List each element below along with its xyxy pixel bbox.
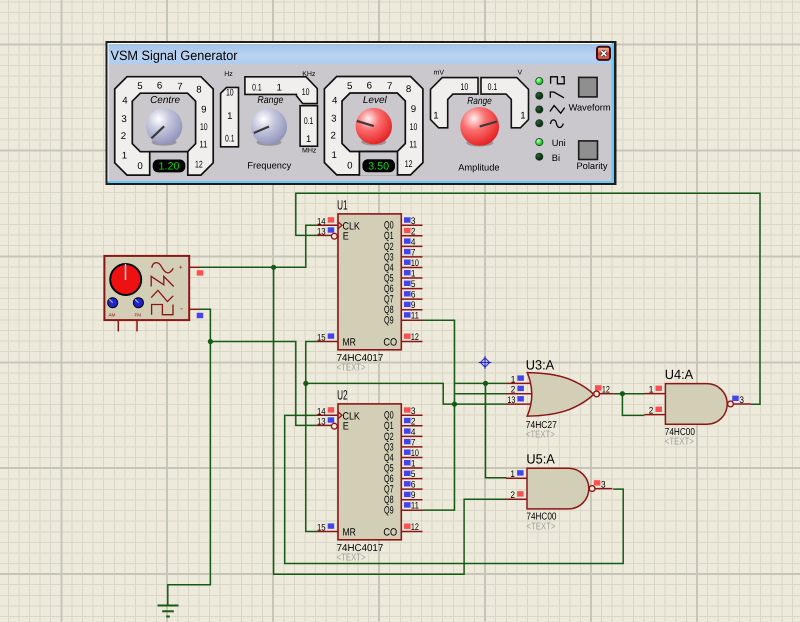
U2 E pin stub with bubble [317, 424, 332, 426]
wire U5 output to U2 CLK [285, 415, 624, 563]
svg-text:6: 6 [367, 80, 372, 91]
svg-text:0: 0 [347, 161, 353, 172]
gate U5:A 74HC00 NAND [506, 452, 613, 533]
svg-text:0.1: 0.1 [252, 82, 262, 93]
svg-text:1: 1 [277, 82, 282, 93]
svg-text:9: 9 [411, 490, 416, 501]
U1 pin 12 CO [401, 341, 422, 343]
U1 pin 14 CLK state square and number [328, 217, 335, 222]
dial Centre [115, 77, 214, 176]
U1 pin 5 Q6 [401, 288, 422, 290]
svg-text:7: 7 [411, 247, 416, 258]
svg-text:2: 2 [411, 226, 416, 237]
U2 pin 3 Q0 [401, 414, 422, 416]
U2 MR pin stub [317, 531, 339, 533]
svg-text:CO: CO [383, 337, 397, 349]
U2 pin 7 Q3 [401, 446, 422, 448]
svg-text:Range: Range [257, 95, 283, 106]
svg-text:1: 1 [510, 469, 515, 480]
svg-text:2: 2 [331, 131, 336, 142]
U5:A pin 2 stub [506, 498, 527, 500]
wire - net to U2 E [210, 342, 316, 426]
amplitude Range plates [431, 70, 529, 173]
svg-text:1.20: 1.20 [159, 161, 180, 173]
U1 pin 13 E state square and number [328, 227, 335, 232]
svg-text:1: 1 [433, 111, 438, 122]
VSM Signal Generator window [106, 41, 617, 185]
svg-text:12: 12 [602, 385, 610, 396]
svg-text:U3:A: U3:A [526, 358, 554, 373]
IC U2 74HC4017 [317, 387, 423, 563]
svg-text:7: 7 [387, 81, 392, 92]
U3 pin 1 state square and number [517, 375, 524, 380]
svg-text:U4:A: U4:A [665, 367, 693, 382]
svg-text:10: 10 [410, 122, 418, 133]
svg-text:5: 5 [411, 279, 416, 290]
svg-text:Q9: Q9 [384, 505, 394, 517]
svg-text:1: 1 [122, 150, 127, 161]
svg-text:11: 11 [200, 140, 208, 151]
svg-text:11: 11 [411, 311, 419, 322]
svg-text:MHz: MHz [302, 148, 317, 155]
svg-text:4: 4 [122, 96, 128, 107]
svg-text:2: 2 [510, 490, 515, 501]
svg-text:9: 9 [201, 104, 206, 115]
svg-text:12: 12 [405, 159, 413, 170]
wire generator - down [199, 309, 210, 341]
svg-text:3: 3 [739, 395, 744, 406]
svg-text:U1: U1 [337, 197, 348, 212]
ground [158, 606, 179, 617]
svg-text:Hz: Hz [224, 71, 233, 78]
svg-text:1: 1 [332, 150, 337, 161]
gate U3:A 74HC27 NOR [507, 358, 614, 441]
svg-text:3: 3 [601, 479, 606, 490]
svg-text:Level: Level [363, 95, 388, 106]
node junction to U5 input 1 [483, 381, 488, 386]
wire MR net to U3 input pin 13 [306, 383, 507, 404]
svg-text:Centre: Centre [150, 95, 180, 106]
U2 pin 6 Q7 [401, 488, 422, 490]
svg-text:8: 8 [196, 84, 201, 95]
svg-text:9: 9 [411, 104, 416, 115]
node junction on - net [208, 339, 213, 344]
svg-text:+: + [179, 265, 183, 272]
svg-text:U5:A: U5:A [526, 452, 554, 467]
U1 MR pin stub [317, 341, 339, 343]
U1 pin 10 Q4 [401, 267, 422, 269]
U2 pin 1 Q5 [401, 467, 422, 469]
node junction on + net [271, 265, 276, 270]
svg-text:MR: MR [343, 527, 357, 539]
svg-text:12: 12 [411, 332, 419, 343]
U1 pin 1 Q5 [401, 277, 422, 279]
U1 pin 11 Q9 [401, 319, 422, 321]
svg-text:15: 15 [317, 523, 326, 534]
svg-text:3: 3 [411, 216, 416, 227]
node junction on Q9 column [452, 402, 457, 407]
svg-text:3: 3 [331, 114, 336, 125]
U1 pin 2 Q1 [401, 235, 422, 237]
U4:A pin 3 output stub [734, 403, 751, 405]
U3 pin 12 output square and number [595, 385, 602, 390]
U5:A pin 1 stub [506, 477, 527, 479]
svg-text:<TEXT>: <TEXT> [337, 552, 366, 563]
U2 pin 10 Q4 [401, 457, 422, 459]
svg-text:1: 1 [520, 111, 525, 122]
node junction on MR net [303, 381, 308, 386]
svg-text:VSM Signal Generator: VSM Signal Generator [111, 48, 238, 63]
U3 pin 13 stub [507, 403, 534, 405]
svg-text:13: 13 [507, 395, 515, 406]
svg-text:6: 6 [157, 81, 162, 92]
svg-text:4: 4 [411, 427, 416, 438]
svg-text:U2: U2 [337, 387, 348, 402]
U4:A pin 3 state square and number [732, 396, 739, 401]
svg-text:1: 1 [227, 111, 232, 122]
wire U1 MR to U2 MR [306, 342, 317, 532]
svg-text:9: 9 [411, 300, 416, 311]
wire U3 output to U4 input 2 [622, 394, 644, 416]
svg-text:Bi: Bi [552, 153, 560, 163]
wire U1 Q9 to U2 Q9 column [423, 320, 455, 510]
svg-text:E: E [343, 231, 349, 243]
Waveform button [569, 77, 611, 112]
svg-text:4: 4 [332, 96, 338, 107]
svg-text:10: 10 [200, 122, 208, 133]
svg-text:5: 5 [347, 81, 352, 92]
svg-text:5: 5 [411, 469, 416, 480]
svg-text:Polarity: Polarity [576, 161, 607, 171]
U2 pin 13 E state square and number [328, 417, 335, 422]
svg-text:2: 2 [411, 416, 416, 427]
gate U4:A 74HC00 NAND [644, 367, 751, 448]
U1 E pin stub with bubble [317, 234, 332, 236]
U1 pin 3 Q0 [401, 224, 422, 226]
svg-text:Amplitude: Amplitude [458, 162, 499, 172]
node junction at U3 output [620, 391, 625, 396]
svg-text:3: 3 [411, 406, 416, 417]
svg-text:<TEXT>: <TEXT> [526, 521, 555, 532]
svg-text:Range: Range [467, 96, 492, 107]
svg-text:10: 10 [226, 88, 234, 99]
U3 pin 13 state square and number [517, 396, 524, 401]
wire U4 output feedback to U1 E [296, 193, 760, 404]
U1 pin 6 Q7 [401, 298, 422, 300]
U1 pin 15 MR state square and number [328, 333, 335, 338]
svg-text:11: 11 [411, 501, 419, 512]
U5:A pin 3 output stub [595, 488, 612, 490]
svg-text:10: 10 [302, 87, 310, 98]
U2 pin 4 Q2 [401, 435, 422, 437]
U2 CLK pin stub [317, 414, 339, 416]
dial Level [324, 77, 423, 176]
wire to U3 input pin 2 [455, 393, 507, 395]
svg-text:1: 1 [411, 459, 416, 470]
svg-text:CO: CO [383, 527, 397, 539]
svg-text:0: 0 [137, 161, 143, 172]
U4:A pin 2 state square and number [656, 407, 663, 412]
generator AM FM bottom stubs [117, 320, 119, 331]
waveform LEDs [0, 0, 1, 1]
svg-text:V: V [518, 70, 523, 77]
Polarity button [576, 141, 607, 171]
svg-text:E: E [343, 421, 349, 433]
svg-text:10: 10 [461, 82, 469, 93]
wire U3 output to U4 input 1 [613, 393, 644, 395]
svg-text:7: 7 [411, 437, 416, 448]
svg-text:MR: MR [343, 337, 357, 349]
U2 pin 15 MR state square and number [328, 523, 335, 528]
wire - net to ground [168, 342, 211, 606]
U2 pin 11 Q9 [401, 509, 422, 511]
U5:A pin 2 state square and number [517, 491, 524, 496]
U4:A pin 1 state square and number [656, 386, 663, 391]
svg-text:0.1: 0.1 [488, 82, 498, 93]
svg-text:13: 13 [317, 227, 326, 238]
svg-text:2: 2 [121, 131, 126, 142]
signal generator component [104, 256, 203, 332]
svg-text:AM: AM [109, 312, 116, 317]
svg-text:3: 3 [121, 114, 126, 125]
wire to U3 input pin 1 [455, 382, 507, 384]
U2 pin 5 Q6 [401, 478, 422, 480]
svg-text:4: 4 [411, 237, 416, 248]
U2 pin 12 CO [401, 531, 422, 533]
U2 pin 2 Q1 [401, 425, 422, 427]
svg-text:-: - [180, 304, 183, 313]
svg-text:5: 5 [137, 81, 142, 92]
svg-text:15: 15 [317, 333, 326, 344]
origin marker [479, 356, 491, 368]
svg-text:Uni: Uni [552, 138, 566, 148]
U3 pin 1 stub [507, 382, 534, 384]
U1 pin 7 Q3 [401, 256, 422, 258]
U1 CLK pin stub [317, 224, 339, 226]
svg-text:KHz: KHz [302, 71, 316, 78]
svg-text:1: 1 [649, 385, 654, 396]
U1 pin 4 Q2 [401, 245, 422, 247]
svg-text:8: 8 [406, 84, 411, 95]
U3 pin 2 stub [507, 393, 536, 395]
svg-text:1: 1 [306, 134, 311, 145]
wire + net down to U5 input 2 [274, 267, 507, 574]
IC U1 74HC4017 [317, 197, 423, 373]
svg-text:10: 10 [411, 258, 419, 269]
svg-text:<TEXT>: <TEXT> [526, 429, 555, 440]
waveform selection glyphs [550, 77, 565, 128]
svg-text:Frequency: Frequency [247, 161, 291, 171]
wire generator + to U1 CLK [199, 225, 317, 267]
wire down to U5 input 1 [486, 383, 507, 477]
svg-text:0.1: 0.1 [304, 116, 314, 127]
svg-text:0.1: 0.1 [225, 134, 235, 145]
frequency Range plate [245, 71, 318, 171]
svg-text:11: 11 [409, 139, 417, 150]
U3 pin 2 state square and number [517, 386, 524, 391]
svg-text:3.50: 3.50 [368, 160, 389, 172]
svg-text:<TEXT>: <TEXT> [665, 437, 694, 448]
frequency Hz strip [221, 71, 239, 147]
svg-text:1: 1 [411, 269, 416, 280]
U4:A pin 1 stub [644, 393, 665, 395]
svg-text:2: 2 [649, 406, 654, 417]
U5:A pin 1 state square and number [517, 470, 524, 475]
U2 pin 9 Q8 [401, 499, 422, 501]
U4:A pin 2 stub [644, 414, 665, 416]
svg-text:12: 12 [411, 522, 419, 533]
svg-text:mV: mV [434, 70, 445, 77]
svg-text:Q9: Q9 [384, 315, 394, 327]
U1 pin 9 Q8 [401, 309, 422, 311]
svg-text:7: 7 [177, 81, 182, 92]
U5:A pin 3 state square and number [594, 480, 601, 485]
svg-text:6: 6 [411, 480, 416, 491]
U2 pin 14 CLK state square and number [328, 407, 335, 412]
svg-text:2: 2 [511, 385, 516, 396]
svg-text:10: 10 [411, 448, 419, 459]
svg-text:13: 13 [317, 417, 326, 428]
svg-text:6: 6 [411, 290, 416, 301]
svg-text:Waveform: Waveform [569, 103, 611, 113]
svg-text:12: 12 [195, 159, 203, 170]
svg-text:<TEXT>: <TEXT> [337, 362, 366, 373]
svg-text:FM: FM [135, 312, 142, 317]
